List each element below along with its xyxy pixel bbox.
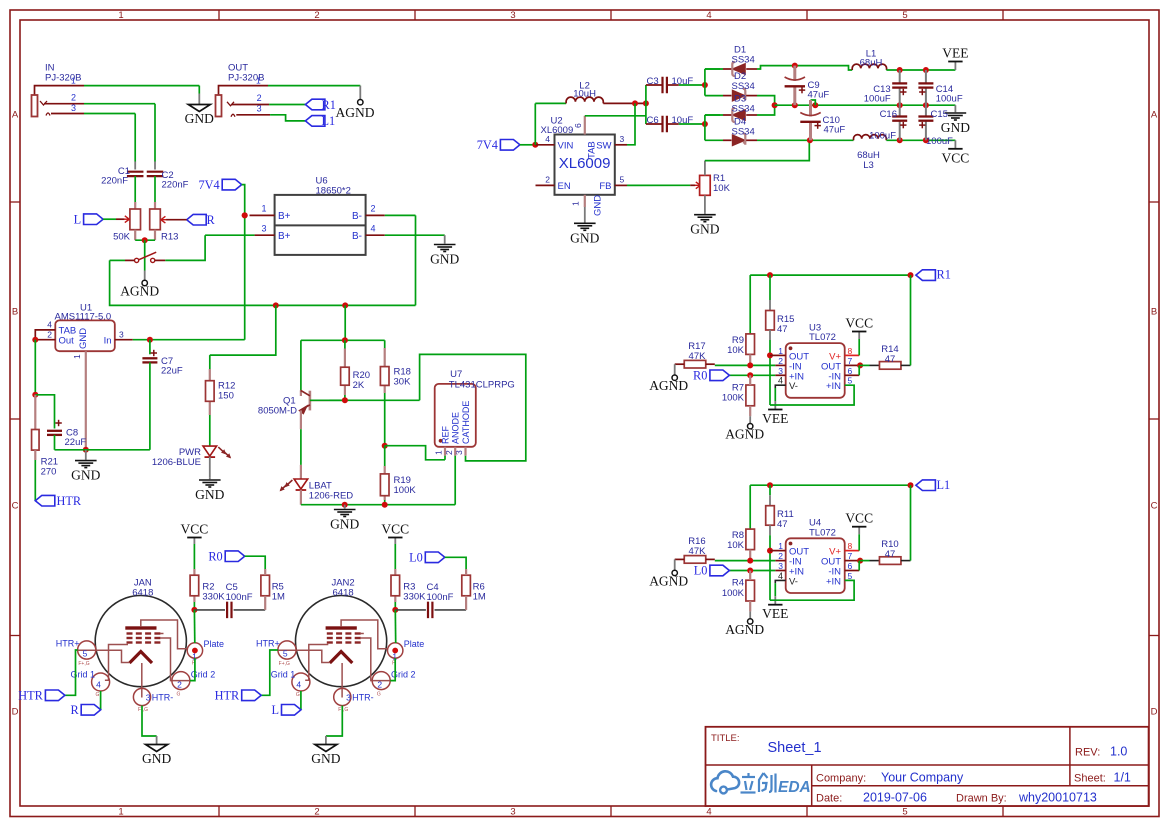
- svg-text:HTR-: HTR-: [152, 693, 174, 703]
- svg-text:C6: C6: [647, 115, 659, 126]
- svg-text:47K: 47K: [689, 351, 707, 362]
- svg-text:G: G: [377, 692, 381, 698]
- svg-text:R13: R13: [161, 232, 178, 243]
- svg-text:TL072: TL072: [809, 527, 836, 538]
- svg-text:R: R: [70, 703, 79, 717]
- svg-text:GND: GND: [142, 751, 171, 766]
- svg-text:1: 1: [778, 346, 783, 356]
- svg-text:R0: R0: [208, 549, 222, 563]
- svg-text:REV:: REV:: [1075, 747, 1100, 759]
- svg-text:Sheet_1: Sheet_1: [768, 740, 822, 756]
- svg-text:5: 5: [283, 649, 288, 659]
- svg-text:50K: 50K: [113, 232, 131, 243]
- svg-text:4: 4: [778, 571, 783, 581]
- svg-text:F-,G: F-,G: [338, 707, 348, 713]
- svg-text:AGND: AGND: [725, 622, 764, 637]
- svg-text:1M: 1M: [473, 592, 486, 603]
- svg-text:3: 3: [146, 692, 151, 702]
- svg-text:330K: 330K: [403, 592, 426, 603]
- svg-text:2: 2: [47, 330, 52, 340]
- svg-text:1: 1: [778, 541, 783, 551]
- svg-text:C: C: [1151, 501, 1158, 512]
- svg-text:R: R: [207, 213, 216, 227]
- svg-text:GND: GND: [78, 328, 89, 349]
- svg-text:2: 2: [545, 174, 550, 184]
- svg-text:10K: 10K: [713, 183, 731, 194]
- svg-text:R0: R0: [693, 369, 707, 383]
- svg-text:+IN: +IN: [826, 381, 841, 392]
- svg-text:10uF: 10uF: [672, 115, 694, 126]
- svg-text:TITLE:: TITLE:: [711, 733, 740, 744]
- svg-text:L: L: [74, 212, 82, 226]
- svg-text:1M: 1M: [272, 592, 285, 603]
- svg-text:F+,G: F+,G: [78, 661, 89, 667]
- svg-text:L0: L0: [694, 564, 708, 578]
- svg-text:2: 2: [71, 93, 76, 103]
- svg-text:3: 3: [778, 561, 783, 571]
- svg-text:1/1: 1/1: [1114, 771, 1131, 785]
- svg-text:AGND: AGND: [649, 378, 688, 393]
- svg-text:VCC: VCC: [181, 522, 209, 537]
- svg-text:+IN: +IN: [826, 576, 841, 587]
- svg-text:F+,G: F+,G: [279, 661, 290, 667]
- svg-text:22uF: 22uF: [65, 437, 87, 448]
- svg-text:1: 1: [118, 807, 123, 818]
- svg-text:HTR: HTR: [215, 689, 240, 703]
- svg-text:FB: FB: [599, 181, 611, 192]
- svg-text:5: 5: [902, 807, 907, 818]
- svg-text:Grid 1: Grid 1: [70, 670, 95, 680]
- svg-text:18650*2: 18650*2: [316, 185, 351, 196]
- svg-text:VCC: VCC: [845, 316, 873, 331]
- svg-text:2: 2: [314, 807, 319, 818]
- svg-text:6418: 6418: [132, 587, 153, 598]
- svg-text:7V4: 7V4: [199, 178, 220, 192]
- svg-text:GND: GND: [71, 468, 100, 483]
- svg-text:4: 4: [778, 376, 783, 386]
- svg-text:1: 1: [434, 450, 444, 455]
- svg-text:C3: C3: [647, 76, 659, 87]
- svg-text:XL6009: XL6009: [559, 155, 611, 172]
- svg-text:CATHODE: CATHODE: [461, 401, 471, 444]
- svg-text:A: A: [12, 110, 19, 121]
- svg-text:220nF: 220nF: [101, 176, 128, 187]
- svg-text:22uF: 22uF: [161, 366, 183, 377]
- svg-text:SS34: SS34: [732, 54, 755, 65]
- svg-text:AGND: AGND: [649, 573, 688, 588]
- svg-text:L: L: [271, 703, 279, 717]
- svg-text:100K: 100K: [722, 393, 745, 404]
- svg-text:6: 6: [848, 561, 853, 571]
- svg-text:HTR: HTR: [18, 689, 43, 703]
- svg-text:VCC: VCC: [845, 511, 873, 526]
- svg-text:150: 150: [218, 391, 234, 402]
- svg-text:V-: V-: [789, 576, 798, 587]
- svg-text:47uF: 47uF: [824, 124, 846, 135]
- svg-text:V-: V-: [789, 381, 798, 392]
- svg-text:A: A: [1151, 110, 1158, 121]
- svg-text:GND: GND: [330, 517, 359, 532]
- svg-text:47: 47: [885, 354, 896, 365]
- svg-text:GND: GND: [593, 195, 604, 216]
- svg-text:47uF: 47uF: [808, 89, 830, 100]
- svg-text:AMS1117-5.0: AMS1117-5.0: [55, 311, 112, 322]
- svg-text:7V4: 7V4: [477, 138, 498, 152]
- svg-text:4: 4: [296, 680, 301, 690]
- svg-text:G: G: [177, 692, 181, 698]
- svg-text:7: 7: [848, 356, 853, 366]
- svg-text:GND: GND: [941, 120, 970, 135]
- svg-text:SS34: SS34: [732, 103, 755, 114]
- svg-text:D: D: [12, 707, 19, 718]
- svg-text:B: B: [12, 307, 18, 318]
- svg-text:GND: GND: [690, 222, 719, 237]
- svg-text:8050M-D: 8050M-D: [258, 405, 297, 416]
- svg-text:SS34: SS34: [732, 126, 755, 137]
- svg-text:4: 4: [47, 320, 52, 330]
- svg-text:Drawn By:: Drawn By:: [956, 792, 1007, 804]
- svg-text:Plate: Plate: [404, 639, 425, 649]
- svg-text:Grid 1: Grid 1: [271, 670, 296, 680]
- svg-text:1.0: 1.0: [1110, 745, 1127, 759]
- svg-text:D: D: [1151, 707, 1158, 718]
- svg-text:10uH: 10uH: [573, 88, 596, 99]
- svg-text:VCC: VCC: [381, 522, 409, 537]
- svg-text:6: 6: [848, 366, 853, 376]
- svg-text:C15: C15: [931, 109, 948, 120]
- svg-text:TL072: TL072: [809, 332, 836, 343]
- svg-text:4: 4: [706, 10, 711, 21]
- svg-text:47: 47: [777, 519, 788, 530]
- svg-text:6: 6: [573, 123, 583, 128]
- svg-text:Sheet:: Sheet:: [1074, 773, 1106, 785]
- svg-text:8: 8: [848, 541, 853, 551]
- svg-text:GND: GND: [430, 252, 459, 267]
- svg-text:GND: GND: [570, 230, 599, 245]
- svg-text:1: 1: [261, 204, 266, 214]
- svg-text:B+: B+: [278, 231, 291, 242]
- svg-text:100K: 100K: [722, 588, 745, 599]
- svg-text:68uH: 68uH: [860, 57, 883, 68]
- svg-text:AGND: AGND: [120, 284, 159, 299]
- svg-text:2: 2: [371, 204, 376, 214]
- svg-text:Company:: Company:: [816, 772, 866, 784]
- svg-text:L1: L1: [322, 114, 336, 128]
- svg-text:B-: B-: [352, 231, 362, 242]
- svg-text:100uF: 100uF: [926, 136, 953, 147]
- svg-text:AGND: AGND: [336, 105, 375, 120]
- svg-text:2019-07-06: 2019-07-06: [863, 790, 927, 804]
- svg-text:VIN: VIN: [558, 141, 574, 152]
- svg-text:GND: GND: [185, 111, 214, 126]
- svg-text:1206-BLUE: 1206-BLUE: [152, 457, 201, 468]
- svg-text:R1: R1: [322, 98, 336, 112]
- svg-text:3: 3: [510, 807, 515, 818]
- svg-text:L1: L1: [937, 478, 951, 492]
- svg-text:GND: GND: [311, 751, 340, 766]
- svg-text:100nF: 100nF: [427, 592, 454, 603]
- svg-text:C: C: [12, 501, 19, 512]
- svg-text:3: 3: [620, 134, 625, 144]
- svg-text:Your Company: Your Company: [881, 770, 964, 784]
- svg-text:F-,G: F-,G: [138, 707, 148, 713]
- svg-text:1: 1: [71, 76, 76, 86]
- svg-text:5: 5: [83, 649, 88, 659]
- svg-text:1: 1: [72, 354, 82, 359]
- svg-text:L0: L0: [409, 551, 423, 565]
- svg-text:270: 270: [41, 467, 57, 478]
- svg-text:1: 1: [118, 10, 123, 21]
- svg-text:10uF: 10uF: [672, 76, 694, 87]
- svg-text:2K: 2K: [353, 380, 365, 391]
- svg-text:AGND: AGND: [725, 427, 764, 442]
- svg-text:100K: 100K: [394, 485, 417, 496]
- svg-text:B-: B-: [352, 211, 362, 222]
- svg-text:100uF: 100uF: [936, 93, 963, 104]
- svg-text:ANODE: ANODE: [451, 412, 461, 444]
- svg-text:1206-RED: 1206-RED: [309, 491, 353, 502]
- svg-text:100uF: 100uF: [869, 130, 896, 141]
- svg-text:G: G: [296, 692, 300, 698]
- svg-text:TL431CLPRPG: TL431CLPRPG: [449, 379, 515, 390]
- svg-text:1: 1: [256, 76, 261, 86]
- svg-text:47: 47: [885, 549, 896, 560]
- svg-text:3: 3: [510, 10, 515, 21]
- svg-text:5: 5: [848, 571, 853, 581]
- svg-text:HTR+: HTR+: [56, 638, 80, 648]
- svg-text:PJ-320B: PJ-320B: [45, 73, 81, 84]
- svg-text:10K: 10K: [727, 540, 745, 551]
- svg-text:SS34: SS34: [732, 81, 755, 92]
- svg-text:2: 2: [314, 10, 319, 21]
- svg-text:VEE: VEE: [762, 606, 788, 621]
- svg-text:5: 5: [848, 376, 853, 386]
- svg-text:5: 5: [902, 10, 907, 21]
- svg-text:HTR-: HTR-: [352, 693, 374, 703]
- svg-text:B: B: [1151, 307, 1157, 318]
- svg-text:4: 4: [706, 807, 711, 818]
- svg-text:7: 7: [848, 551, 853, 561]
- svg-text:EN: EN: [558, 181, 571, 192]
- svg-text:220nF: 220nF: [162, 180, 189, 191]
- svg-text:In: In: [104, 335, 112, 346]
- svg-text:SW: SW: [596, 141, 611, 152]
- svg-text:30K: 30K: [394, 377, 412, 388]
- svg-text:100nF: 100nF: [226, 592, 253, 603]
- svg-text:Date:: Date:: [816, 792, 842, 804]
- svg-text:2: 2: [778, 356, 783, 366]
- svg-text:Out: Out: [59, 335, 75, 346]
- svg-text:GND: GND: [195, 487, 224, 502]
- svg-text:330K: 330K: [202, 592, 225, 603]
- svg-text:R1: R1: [937, 268, 951, 282]
- svg-text:EDA: EDA: [778, 779, 811, 796]
- svg-text:8: 8: [848, 346, 853, 356]
- svg-text:4: 4: [545, 134, 550, 144]
- svg-text:L3: L3: [863, 160, 874, 171]
- svg-text:3: 3: [778, 366, 783, 376]
- svg-text:100uF: 100uF: [864, 93, 891, 104]
- svg-text:C16: C16: [880, 109, 897, 120]
- svg-text:2: 2: [257, 93, 262, 103]
- svg-text:why20010713: why20010713: [1018, 790, 1097, 804]
- svg-text:6418: 6418: [333, 587, 354, 598]
- svg-text:3: 3: [261, 223, 266, 233]
- svg-text:VEE: VEE: [762, 411, 788, 426]
- svg-text:47K: 47K: [689, 546, 707, 557]
- svg-text:TAB: TAB: [587, 141, 598, 159]
- svg-text:HTR+: HTR+: [256, 638, 280, 648]
- svg-text:VEE: VEE: [942, 46, 968, 61]
- svg-text:VCC: VCC: [942, 150, 970, 165]
- svg-text:4: 4: [371, 223, 376, 233]
- svg-text:10K: 10K: [727, 345, 745, 356]
- svg-text:Plate: Plate: [204, 639, 225, 649]
- svg-text:REF: REF: [440, 425, 450, 444]
- svg-text:47: 47: [777, 324, 788, 335]
- svg-text:3: 3: [119, 330, 124, 340]
- svg-text:G: G: [96, 692, 100, 698]
- svg-text:3: 3: [346, 692, 351, 702]
- svg-text:2: 2: [778, 551, 783, 561]
- svg-text:B+: B+: [278, 211, 291, 222]
- svg-text:4: 4: [96, 680, 101, 690]
- svg-text:1: 1: [571, 201, 581, 206]
- svg-text:HTR: HTR: [57, 494, 82, 508]
- svg-text:5: 5: [620, 174, 625, 184]
